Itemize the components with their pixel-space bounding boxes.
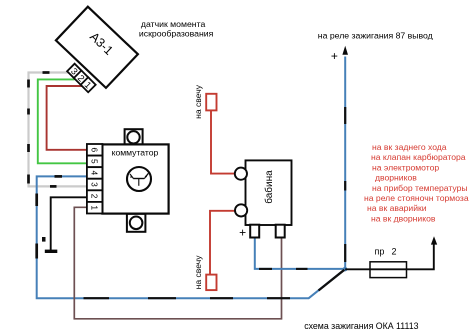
wire: black ground wire from commutator pin2 <box>51 197 87 250</box>
coil low voltage terminal plus <box>250 225 259 238</box>
commutator U1 body <box>102 144 168 213</box>
svg-text:2: 2 <box>392 246 397 256</box>
svg-text:6: 6 <box>89 147 99 152</box>
node: junction of blue wires <box>343 267 348 272</box>
label: na svechu bottom <box>193 255 203 290</box>
svg-text:+: + <box>239 226 246 240</box>
svg-text:+: + <box>331 49 338 63</box>
commutator pin 5 <box>87 156 103 168</box>
svg-text:на вк заднего хода: на вк заднего хода <box>372 142 447 152</box>
spark plug connector bottom <box>206 275 216 291</box>
black dashes on blue main vertical <box>344 107 346 262</box>
label: plus at coil <box>239 226 246 240</box>
svg-text:4: 4 <box>89 171 99 176</box>
svg-text:дворников: дворников <box>375 173 417 183</box>
coil high voltage terminal top <box>235 168 247 180</box>
svg-text:на реле стояночн тормоза: на реле стояночн тормоза <box>364 193 469 203</box>
commutator pin 2 <box>87 190 103 202</box>
black dash on blue diagonal <box>319 270 345 291</box>
svg-text:пр: пр <box>375 246 385 256</box>
sensor A3-1 body <box>56 7 138 88</box>
connector X1 pins 3 2 1 of sensor <box>67 64 96 93</box>
spark plug connector top <box>206 94 216 111</box>
svg-text:2: 2 <box>89 194 99 199</box>
black dashes on coil blue horizontal <box>259 268 308 270</box>
commutator transistor symbol <box>127 167 151 191</box>
wire: red wire sensor pin1 to commutator pin6 <box>47 86 87 150</box>
label: sensor caption <box>139 19 214 39</box>
small ink speck <box>42 237 46 242</box>
label: red destination list <box>364 142 469 223</box>
arrow up at fuse output <box>431 236 437 244</box>
wire: black wire junction to fuse and up arrow <box>345 244 434 269</box>
black dashes on blue pin4 vertical <box>35 194 38 259</box>
ignition coil body <box>246 160 292 225</box>
shield dashes on grey vertical <box>27 80 30 184</box>
commutator pin 3 <box>87 179 103 191</box>
commutator pin 1 <box>87 202 103 214</box>
svg-text:на вк дворников: на вк дворников <box>371 213 436 223</box>
svg-text:на реле зажигания 87 вывод: на реле зажигания 87 вывод <box>318 30 433 40</box>
wire: blue wire commutator pin4 to bottom bus and junction <box>37 176 345 298</box>
wire: shielded grey wire sensor pin3 to commutator pin3 <box>29 73 87 187</box>
commutator pin 6 <box>87 144 103 156</box>
label: title <box>304 321 418 331</box>
wire: blue main supply vertical from relay arrow to junction <box>344 57 346 270</box>
label: plus at supply <box>331 49 338 63</box>
svg-text:бабина: бабина <box>263 170 275 204</box>
black dash on blue pin4 horizontal <box>55 175 63 178</box>
wire: dark maroon wire commutator pin1 to coil terminal <box>74 207 281 318</box>
wire: red high-voltage wire bottom spark plug to coil <box>210 211 235 275</box>
coil low voltage terminal minus <box>276 225 285 238</box>
shield dash on grey horizontal <box>43 71 50 74</box>
commutator U1 top mounting tab <box>125 129 143 144</box>
svg-text:1: 1 <box>89 205 99 210</box>
svg-text:на прибор температуры: на прибор температуры <box>372 183 468 193</box>
svg-text:коммутатор: коммутатор <box>112 147 159 157</box>
shield dash on grey bottom horizontal <box>50 185 57 188</box>
commutator pin 4 <box>87 167 103 179</box>
svg-text:на вк аварийки: на вк аварийки <box>367 203 427 213</box>
svg-text:5: 5 <box>89 159 99 164</box>
commutator U1 bottom mounting tab <box>127 214 145 232</box>
label: relay caption <box>318 30 433 40</box>
svg-text:искрообразования: искрообразования <box>139 29 214 39</box>
fuse pr2 <box>370 246 407 277</box>
svg-text:на свечу: на свечу <box>193 84 203 119</box>
svg-text:схема зажигания ОКА 11113: схема зажигания ОКА 11113 <box>304 321 418 331</box>
svg-text:3: 3 <box>89 182 99 187</box>
black dashes on bottom blue bus <box>84 297 291 299</box>
label: na svechu top <box>193 84 203 119</box>
wire: blue wire coil plus terminal to junction <box>255 237 345 269</box>
wire: red high-voltage wire top spark plug to coil <box>211 111 235 174</box>
svg-text:датчик момента: датчик момента <box>141 19 206 29</box>
arrow up blue supply <box>342 46 348 55</box>
svg-text:на электромотор: на электромотор <box>372 162 439 172</box>
svg-text:на свечу: на свечу <box>193 255 203 290</box>
coil high voltage terminal bottom <box>235 204 247 216</box>
ground <box>45 250 58 253</box>
svg-text:на клапан карбюратора: на клапан карбюратора <box>371 152 466 162</box>
wire: green wire sensor pin2 to commutator pin5 <box>38 79 87 163</box>
